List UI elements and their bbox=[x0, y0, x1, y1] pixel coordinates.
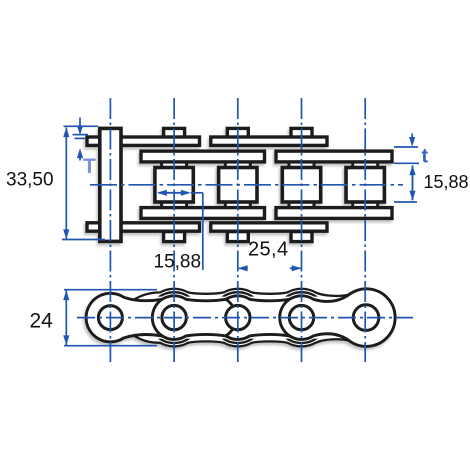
outer plate top B (pins 3-4) bbox=[211, 137, 327, 145]
svg-text:15,88: 15,88 bbox=[424, 172, 469, 192]
plan view inner link plate (pins 2-3) bbox=[152, 296, 236, 340]
inner plate top (pins 2-3) bbox=[141, 151, 265, 162]
plan view outer link plate (pins 3-4) bbox=[216, 296, 300, 340]
svg-text:33,50: 33,50 bbox=[6, 169, 54, 190]
pin 3 vertical centerline bbox=[237, 98, 239, 362]
inner plate bottom (pins 2-3) bbox=[141, 208, 265, 219]
plan view middle plate arc at pin 4 bbox=[276, 292, 327, 343]
roller R2 bbox=[155, 168, 193, 203]
plan view middle plate arc at pin 2 bbox=[149, 292, 200, 343]
svg-text:T: T bbox=[83, 155, 96, 178]
pin 4 vertical centerline bbox=[301, 98, 303, 362]
dim 33,50 dimension line bbox=[65, 128, 67, 240]
bushing flange bottom P2 bbox=[162, 202, 187, 209]
svg-text:t: t bbox=[422, 146, 429, 168]
bushing flange bottom P5 bbox=[353, 202, 378, 209]
bushing flange top P5 bbox=[353, 161, 378, 168]
roller R5 bbox=[346, 168, 384, 203]
dim 15,88 roller width arrows bbox=[159, 192, 189, 194]
outer plate bottom B (pins 3-4) bbox=[211, 223, 327, 231]
outer plate bottom A (pins 1-2) bbox=[87, 223, 200, 231]
plan view middle plate arc at pin 3 bbox=[212, 292, 263, 343]
dim T reference ticks bbox=[73, 134, 89, 136]
dim 15,88 right extension line bbox=[394, 201, 417, 203]
dim T lower arrow bbox=[77, 148, 83, 158]
roller R4 bbox=[282, 168, 320, 203]
outer plate top A (pins 1-2) bbox=[87, 137, 200, 145]
plan view inner link plate (pins 4-5) bbox=[280, 289, 395, 347]
bushing flange bottom P3 bbox=[225, 202, 250, 209]
pin 5 vertical centerline bbox=[364, 98, 366, 362]
side view horizontal centerline bbox=[90, 184, 403, 186]
pin head bottom P2 bbox=[164, 232, 185, 242]
pin head top P2 bbox=[164, 128, 185, 138]
inner plate bottom (pins 4-5) bbox=[276, 208, 392, 219]
dim t arrow bbox=[411, 134, 413, 140]
bushing flange top P2 bbox=[162, 161, 187, 168]
roller R3 bbox=[219, 168, 257, 203]
dim 25,4 arrows bbox=[239, 267, 248, 269]
svg-text:15,88: 15,88 bbox=[154, 252, 202, 273]
dim T upper arrow bbox=[79, 118, 81, 129]
pin hole 3 (plan view) bbox=[226, 305, 250, 329]
dim 15,88 leader line bbox=[191, 192, 203, 194]
pin head bottom P3 bbox=[227, 232, 248, 242]
dim 24 dimension line bbox=[65, 291, 67, 346]
pin hole 2 (plan view) bbox=[162, 305, 186, 329]
pin head top P4 bbox=[291, 128, 312, 138]
bushing flange top P4 bbox=[289, 161, 314, 168]
pin head top P3 bbox=[227, 128, 248, 138]
svg-text:25,4: 25,4 bbox=[248, 239, 289, 261]
dim t reference lines bbox=[394, 146, 418, 148]
inner plate top (pins 4-5) bbox=[276, 151, 392, 162]
pin hole 5 (plan view) bbox=[353, 305, 379, 331]
bushing flange bottom P4 bbox=[289, 202, 314, 209]
pin head bottom P4 bbox=[291, 232, 312, 242]
pin hole 1 (plan view) bbox=[98, 306, 122, 330]
pin 1 vertical centerline bbox=[109, 98, 111, 362]
svg-text:24: 24 bbox=[30, 310, 54, 333]
plan view horizontal centerline bbox=[77, 317, 413, 319]
pin P1 (full length) bbox=[100, 128, 121, 241]
pin 2 vertical centerline bbox=[173, 98, 175, 362]
dim 33,50 extension lines bbox=[64, 125, 99, 127]
pin hole 4 (plan view) bbox=[289, 305, 313, 329]
plan view big inner-plate contour bbox=[133, 289, 395, 347]
plan view outer link plate (pins 1-2) bbox=[86, 293, 172, 342]
dim 24 extension lines bbox=[64, 289, 157, 291]
bushing flange top P3 bbox=[225, 161, 250, 168]
dim 15,88 right dimension line bbox=[412, 166, 414, 201]
